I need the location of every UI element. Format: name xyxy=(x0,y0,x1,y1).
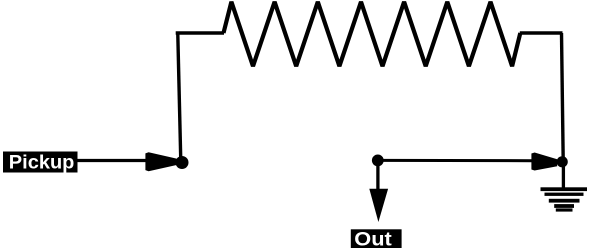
wire pickup to node A xyxy=(78,159,151,162)
wire node A up to resistor xyxy=(178,35,181,162)
svg-text:Pickup: Pickup xyxy=(9,152,75,173)
wire top left xyxy=(176,31,224,34)
label Out xyxy=(351,229,402,251)
arrowhead into node A xyxy=(145,152,176,171)
wire node B to node C xyxy=(378,159,535,162)
node B junction dot xyxy=(372,155,384,167)
node A junction dot xyxy=(176,156,189,169)
wire top right xyxy=(520,31,563,34)
arrowhead to Out xyxy=(369,189,388,222)
label Pickup xyxy=(3,152,78,174)
wire node C to ground xyxy=(562,161,565,189)
resistor R1 xyxy=(224,2,521,66)
wire right vertical xyxy=(562,33,564,161)
svg-text:Out: Out xyxy=(354,229,392,251)
arrowhead into node C xyxy=(531,153,557,171)
wire node B down to Out arrow xyxy=(376,160,379,190)
node C junction dot xyxy=(557,156,568,167)
ground xyxy=(541,187,588,211)
